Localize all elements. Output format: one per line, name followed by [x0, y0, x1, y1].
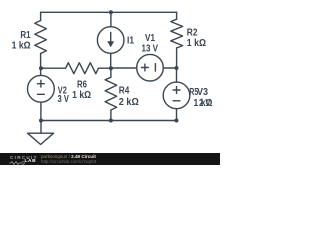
wire R1 bottom lead to node A — [40, 54, 42, 76]
voltage source V3 — [163, 82, 190, 109]
svg-text:R1: R1 — [20, 30, 31, 41]
svg-text:1 kΩ: 1 kΩ — [12, 40, 31, 51]
wire top rail — [41, 11, 177, 13]
node junction right mid — [175, 66, 179, 70]
node junction top — [109, 10, 113, 14]
resistor R2 — [171, 19, 183, 48]
wire R2 bottom lead — [176, 48, 178, 68]
svg-text:R2: R2 — [187, 28, 198, 39]
wire V1 left lead — [111, 67, 137, 69]
wire V1 right lead — [163, 67, 176, 69]
wire R2 top lead — [176, 12, 178, 19]
resistor R1 — [35, 21, 47, 54]
svg-text:V3: V3 — [197, 87, 208, 98]
svg-text:V1: V1 — [145, 33, 155, 44]
node junction ground — [39, 119, 43, 123]
svg-text:I1: I1 — [127, 36, 134, 47]
wire I1 top lead — [110, 12, 112, 26]
wire V2 bottom lead — [40, 102, 42, 120]
svg-text:R4: R4 — [119, 86, 130, 97]
svg-text:1 kΩ: 1 kΩ — [72, 90, 91, 101]
CircuitLab logo — [10, 156, 38, 161]
wire R1 top lead — [40, 12, 42, 20]
svg-text:3 V: 3 V — [58, 94, 70, 105]
svg-text:1 kΩ: 1 kΩ — [187, 38, 206, 49]
watermark banner — [0, 153, 220, 165]
ground — [40, 121, 42, 134]
current source I1 — [97, 27, 124, 54]
voltage source V2 — [28, 75, 55, 102]
wire bottom rail — [41, 120, 177, 122]
resistor R6 — [41, 63, 111, 74]
node junction bottom center — [109, 119, 113, 123]
node junction bottom right — [175, 119, 179, 123]
resistor R4 — [105, 68, 117, 120]
voltage source V1 — [137, 54, 164, 81]
svg-text:13 V: 13 V — [142, 43, 159, 54]
wire I1 bottom lead — [110, 53, 112, 68]
svg-text:2 kΩ: 2 kΩ — [119, 97, 139, 108]
svg-text:2 V: 2 V — [199, 98, 211, 109]
wire V3 top lead — [176, 68, 178, 82]
node junction left mid — [39, 66, 43, 70]
svg-text:R6: R6 — [77, 79, 87, 90]
node junction center mid — [109, 66, 113, 70]
wire V3 bottom lead — [176, 109, 178, 121]
watermark text — [41, 155, 96, 160]
